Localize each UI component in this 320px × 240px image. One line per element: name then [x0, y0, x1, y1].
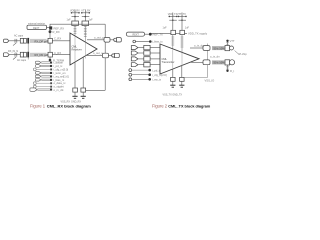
port TX_DP pad [230, 46, 234, 50]
control port stack (RX config pins) [30, 61, 69, 93]
svg-text:C_RX: C_RX [54, 37, 61, 41]
node R_TERM [49, 59, 52, 62]
svg-text:o_rx_clk: o_rx_clk [54, 88, 65, 92]
svg-text:1uF: 1uF [185, 27, 190, 30]
op-amp U2 (CML Transmitter) [160, 44, 199, 74]
svg-text:o_tx_dp: o_tx_dp [194, 43, 204, 47]
wire: right boundary vertical [104, 24, 106, 90]
power symbol VTT_RX (column B top) [81, 10, 93, 22]
ferrite bead FB3 [73, 88, 78, 92]
ferrite bead FB2 [82, 21, 89, 26]
inductor L4 (TX output filter) [203, 60, 210, 65]
ferrite bead FB6 [180, 30, 185, 34]
wire: U2 output P [190, 47, 203, 49]
capacitor C_RX (row1 on-chip) [48, 38, 52, 43]
wire: TX supply column 2 into U2 [181, 35, 184, 53]
node R_RX [49, 30, 52, 33]
svg-text:R_RX: R_RX [53, 30, 60, 34]
TX data input ports with level shifters [131, 45, 160, 67]
node REF_RX (termination tap) [49, 26, 52, 29]
TX control ports (circle pins) [129, 68, 167, 81]
port o_out_p [114, 38, 117, 41]
svg-text:i_cfg_rx[3:0]: i_cfg_rx[3:0] [53, 67, 68, 71]
wire: L1 to port [110, 39, 114, 41]
svg-text:i_term_en: i_term_en [53, 71, 66, 75]
ground (VSS_TX) [172, 81, 174, 85]
svg-text:o_out_p: o_out_p [94, 36, 104, 40]
inductor L2 (output filter) [103, 53, 109, 58]
svg-text:AC caps: AC caps [14, 35, 24, 38]
svg-text:Transmitter: Transmitter [162, 60, 175, 64]
wire: supply columns through U1 [74, 36, 76, 62]
resistor R1 50 ohm [212, 46, 225, 50]
wire: U1 VSS column B [82, 57, 84, 88]
capacitor C1 (AC coupling, row1) [14, 39, 16, 43]
wire: bottom VSS rail [85, 89, 106, 91]
svg-text:i_bias_rx: i_bias_rx [53, 78, 65, 82]
power symbol VDD_RX (column A top) [67, 10, 81, 22]
svg-text:Figure 1: Figure 1 [30, 103, 46, 108]
power symbol VTT_TX (column 2 top) [177, 13, 189, 31]
svg-text:RX_DP pad: RX_DP pad [35, 39, 49, 43]
svg-text:1uF: 1uF [163, 27, 168, 30]
svg-text:REXT: REXT [33, 27, 40, 30]
svg-text:Figure 2: Figure 2 [152, 103, 168, 108]
port o_out_n [112, 54, 115, 57]
svg-text:RX_DN pad: RX_DN pad [35, 53, 49, 57]
svg-text:VDD_TX supply: VDD_TX supply [188, 31, 208, 35]
wire: termination R_t pull-down [227, 65, 229, 71]
wire: row1 into U1 [47, 40, 71, 42]
svg-text:REF_RX: REF_RX [54, 26, 65, 30]
ferrite bead FB4 [81, 88, 86, 92]
ground (VSS_RX) [74, 92, 76, 96]
svg-text:o_data_rx: o_data_rx [54, 81, 67, 85]
capacitor C4 pair (row2) [20, 52, 23, 57]
svg-text:50 ± 10%: 50 ± 10% [214, 46, 226, 50]
wire: U1 VSS column A [74, 62, 76, 88]
wire: RX_IN_P to C1 [9, 40, 20, 42]
inductor L1 (output filter) [104, 38, 110, 43]
capacitor C6 (row N) [225, 60, 230, 65]
wire: TX supply column 1 into U2 [171, 35, 174, 49]
svg-text:CML_TX block diagram: CML_TX block diagram [168, 104, 211, 108]
wire: reference bus vertical [49, 29, 51, 60]
svg-text:Receiver: Receiver [72, 47, 82, 51]
wire: U2 VSS columns [172, 69, 174, 77]
svg-text:VTT: VTT [230, 39, 235, 43]
svg-text:i_pd_rx: i_pd_rx [53, 64, 63, 68]
wire: U2 output N [190, 61, 203, 63]
svg-text:VTT_RX: VTT_RX [81, 10, 91, 13]
svg-text:R_t: R_t [230, 69, 234, 73]
svg-text:REF_TX: REF_TX [153, 33, 164, 37]
wire: U1 output to L2 [87, 55, 102, 57]
svg-text:i_bias_tx: i_bias_tx [152, 40, 164, 44]
wire: VTT pull-up [227, 41, 229, 46]
ferrite bead FB1 [72, 21, 79, 26]
svg-text:RX_IN_N: RX_IN_N [8, 50, 18, 53]
ferrite bead FB8 [180, 77, 185, 81]
capacitor C_RX2 (row2 on-chip) [48, 52, 52, 57]
svg-text:50 ± 10%: 50 ± 10% [214, 61, 226, 65]
resistor REXT (external reference) [27, 25, 47, 29]
junction J2 (row2 pad pin) [27, 52, 29, 58]
ground (GND_RX) [82, 92, 84, 96]
svg-text:o_sigdet: o_sigdet [54, 85, 64, 89]
svg-text:AC caps: AC caps [17, 59, 27, 62]
wire: L2 to port [108, 55, 112, 57]
inductor L3 (TX output filter) [203, 46, 210, 51]
resistor REXT_TX (external reference) [126, 32, 144, 36]
wire: supply column A into U1 [74, 26, 77, 37]
wire: RX_IN_N to C3 [9, 54, 20, 56]
capacitor C2 pair (row1) [20, 38, 23, 43]
wire: U1 output to L1 [87, 39, 104, 41]
svg-text:VDD_RX: VDD_RX [70, 10, 80, 13]
svg-text:VSS_TX GND_TX: VSS_TX GND_TX [163, 94, 183, 97]
svg-text:CML_RX block diagram: CML_RX block diagram [47, 103, 91, 108]
svg-text:o_out_n: o_out_n [93, 51, 103, 55]
resistor R2 50 ohm [212, 60, 225, 64]
wire: row2 into U1 [47, 54, 71, 56]
wire: VDD rail [50, 24, 105, 27]
ferrite bead FB5 [171, 30, 176, 34]
svg-text:1uF: 1uF [89, 19, 94, 22]
svg-text:off-chip: off-chip [238, 52, 247, 56]
power symbol VDD_TX (column 1 top) [163, 13, 178, 31]
svg-text:o_tx_dn: o_tx_dn [210, 55, 220, 59]
wire: TX VDD rail [152, 32, 188, 34]
wire: supply columns through U2 [172, 49, 174, 69]
wire: TX bottom VSS rail and boundary [184, 77, 207, 79]
port RX_IN_P [4, 39, 9, 42]
port i_bias_tx (circle pin) [133, 40, 136, 43]
svg-text:i_cfg_tx[2:0]: i_cfg_tx[2:0] [152, 73, 167, 77]
wire: link between row1 and row2 [27, 44, 29, 60]
op-amp U1 (CML Receiver) [70, 33, 97, 65]
svg-text:VSS_IO: VSS_IO [205, 79, 215, 83]
svg-text:i_eq_sel[1:0]: i_eq_sel[1:0] [53, 74, 69, 78]
wire: supply column B into U1 [84, 26, 87, 43]
pad trace RX_DN [30, 53, 47, 57]
svg-text:C_RX: C_RX [54, 51, 61, 55]
node R_t [226, 70, 228, 72]
port RX_IN_N [3, 53, 9, 57]
capacitor C3 (AC coupling, row2) [14, 53, 16, 57]
svg-text:i_sw_tx: i_sw_tx [152, 78, 162, 82]
ground (GND_TX) [181, 81, 183, 85]
svg-text:VTT_TX: VTT_TX [177, 13, 186, 16]
svg-text:i_datain: i_datain [53, 61, 63, 65]
pad trace RX_DP [30, 39, 47, 43]
port TX_DN pad [229, 60, 234, 65]
port o_rx_clk (bottom row) [30, 88, 37, 91]
ferrite bead FB7 [171, 77, 176, 81]
svg-text:1uF: 1uF [67, 19, 72, 22]
svg-text:REXT: REXT [133, 33, 140, 36]
junction J1 (row1 pad pin) [27, 38, 29, 44]
svg-text:external resistor: external resistor [28, 22, 45, 25]
capacitor C5 (row P) [225, 46, 230, 51]
node VTT [226, 40, 228, 42]
